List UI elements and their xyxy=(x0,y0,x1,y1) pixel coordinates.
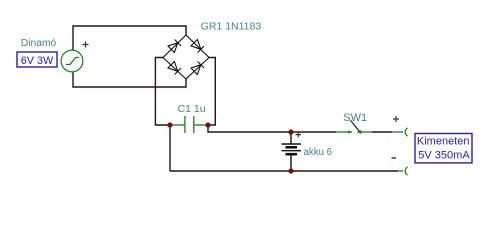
AC source U1 Dinamo circle xyxy=(61,50,83,72)
switch SW1 lever xyxy=(351,120,360,131)
wire from switch to output port xyxy=(372,131,392,133)
label GR1 1N1183 xyxy=(201,21,262,33)
battery plus polarity mark xyxy=(296,132,302,137)
source plus polarity mark xyxy=(83,42,89,48)
junction node left of C1 xyxy=(167,122,172,127)
battery akku top lead xyxy=(290,132,292,144)
junction node right of C1 xyxy=(205,122,210,127)
battery akku bottom lead xyxy=(290,156,292,172)
label akku 6 xyxy=(304,147,333,158)
output port plus lead xyxy=(392,128,408,136)
output port minus mark xyxy=(392,157,397,159)
diode D3 bottom-left xyxy=(168,62,181,75)
wire top from source to bridge xyxy=(73,26,186,50)
svg-text:6V 3W: 6V 3W xyxy=(21,55,54,67)
svg-text:akku 6: akku 6 xyxy=(304,147,333,158)
capacitor C1 xyxy=(170,116,208,133)
label SW1 xyxy=(343,112,367,124)
label Dinamo xyxy=(21,38,57,49)
battery akku plates xyxy=(282,144,302,154)
bottom rail wire xyxy=(170,170,398,172)
svg-text:SW1: SW1 xyxy=(343,112,367,124)
wire from right node to switch xyxy=(208,125,336,132)
output port minus lead xyxy=(398,167,408,175)
junction node battery top xyxy=(288,129,293,134)
output box Kimeneten 5V 350mA xyxy=(415,134,472,163)
wire bottom from source to bridge xyxy=(73,73,186,88)
diode D2 top-right xyxy=(191,40,204,53)
wire from bridge left corner down to node xyxy=(155,58,170,126)
junction node battery bottom xyxy=(288,168,293,173)
diode D4 bottom-right xyxy=(191,62,204,75)
svg-text:C1 1u: C1 1u xyxy=(178,103,206,115)
value box 6V 3W xyxy=(17,52,57,67)
bridge rectifier GR1 diamond xyxy=(163,35,209,79)
switch SW1 contact arrows xyxy=(348,130,362,134)
output port plus mark xyxy=(393,116,399,122)
svg-text:Kimeneten: Kimeneten xyxy=(417,136,470,148)
svg-text:Dinamó: Dinamó xyxy=(21,38,57,49)
label C1 1u xyxy=(178,103,206,115)
diode D1 top-left xyxy=(168,40,181,53)
wire from bridge right corner down to node xyxy=(208,58,215,126)
wire from left node down to bottom rail xyxy=(169,125,171,171)
switch SW1 xyxy=(336,131,372,133)
svg-text:5V 350mA: 5V 350mA xyxy=(418,150,470,162)
svg-text:GR1 1N1183: GR1 1N1183 xyxy=(201,21,262,33)
